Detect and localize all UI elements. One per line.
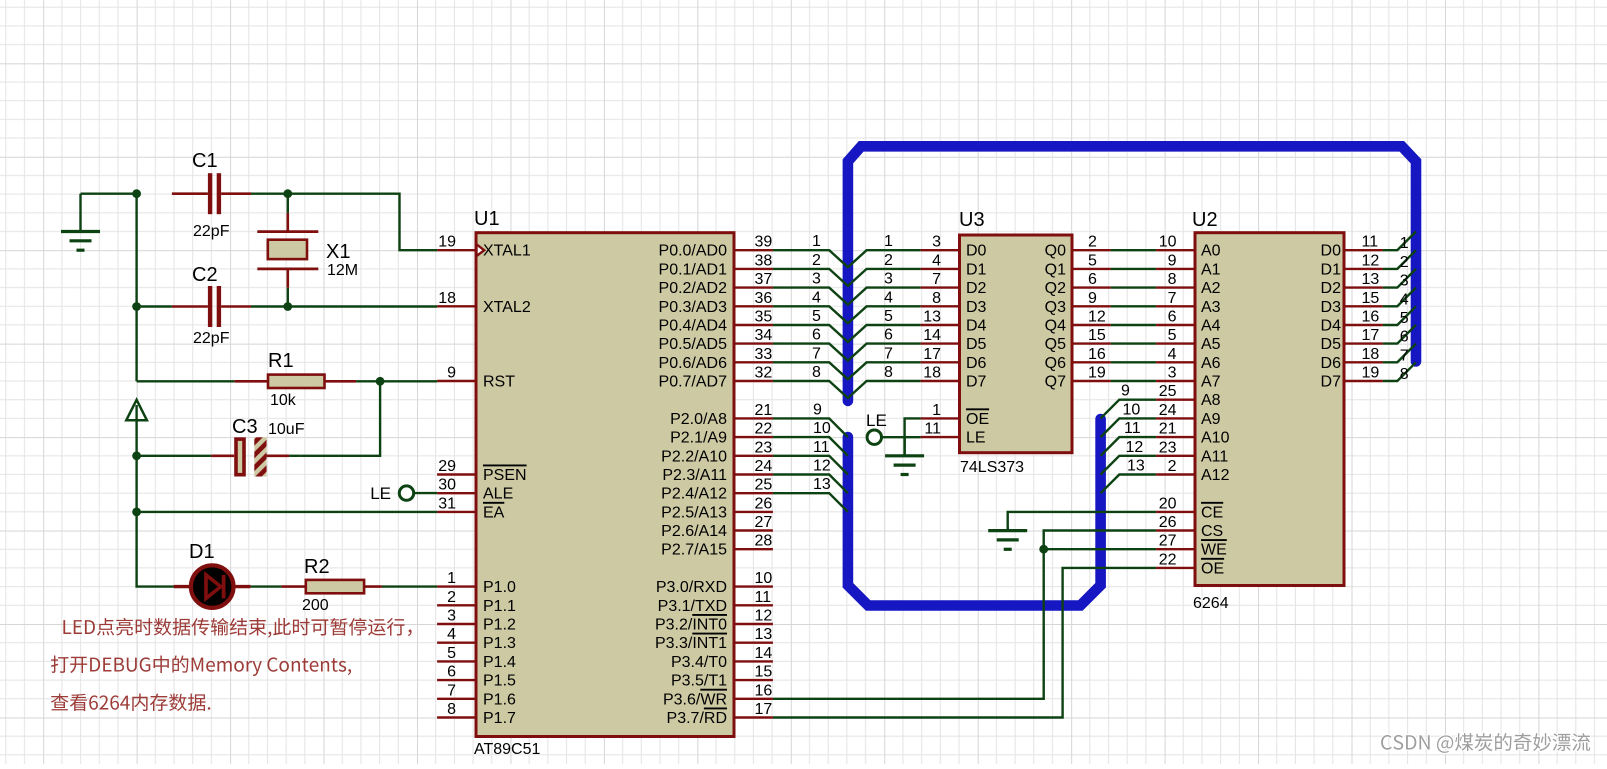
svg-text:XTAL2: XTAL2 — [483, 299, 531, 316]
watermark CSDN — [1381, 733, 1590, 753]
svg-text:36: 36 — [755, 290, 773, 307]
svg-text:P3.3/INT1: P3.3/INT1 — [655, 635, 727, 652]
svg-text:A8: A8 — [1201, 392, 1221, 409]
svg-text:8: 8 — [812, 364, 821, 381]
svg-text:D5: D5 — [966, 336, 987, 353]
svg-text:21: 21 — [755, 402, 773, 419]
svg-text:6: 6 — [884, 327, 893, 344]
svg-text:4: 4 — [812, 289, 821, 306]
node: junction C2/ground rail — [132, 302, 141, 311]
svg-text:29: 29 — [438, 458, 456, 475]
svg-text:27: 27 — [755, 514, 773, 531]
svg-text:D5: D5 — [1321, 336, 1342, 353]
svg-text:7: 7 — [1400, 347, 1409, 364]
node: junction EA row/ground rail — [132, 508, 141, 517]
svg-text:D2: D2 — [1321, 280, 1342, 297]
svg-text:P0.6/AD6: P0.6/AD6 — [659, 355, 728, 372]
svg-text:15: 15 — [1362, 290, 1380, 307]
svg-text:U2: U2 — [1192, 209, 1218, 231]
svg-text:R2: R2 — [304, 556, 330, 578]
U1 pin 38 P0.1/AD1 stub — [659, 252, 773, 278]
svg-text:ALE: ALE — [483, 486, 513, 503]
wire: net 7 P0.6/AD6 to bus to 74LS373 D6 — [773, 345, 921, 379]
svg-text:D4: D4 — [966, 318, 987, 335]
node: junction C2/X1 bottom — [283, 302, 292, 311]
svg-text:P1.0: P1.0 — [483, 579, 516, 596]
svg-text:Q6: Q6 — [1045, 355, 1066, 372]
svg-text:R1: R1 — [268, 350, 294, 372]
svg-text:12: 12 — [755, 608, 773, 625]
U1 pin 18 XTAL2 stub — [437, 290, 531, 316]
wire: net 5 P0.4/AD4 to bus to 74LS373 D4 — [773, 308, 921, 342]
node: junction WE/CS rail — [1039, 545, 1048, 554]
svg-text:18: 18 — [438, 290, 456, 307]
svg-text:11: 11 — [1124, 420, 1141, 437]
svg-text:P3.6/WR: P3.6/WR — [663, 691, 727, 708]
svg-text:7: 7 — [812, 345, 821, 362]
svg-text:A6: A6 — [1201, 355, 1221, 372]
svg-text:U1: U1 — [474, 208, 500, 230]
svg-text:16: 16 — [1362, 309, 1380, 326]
U1 pin 6 P1.5 stub — [437, 664, 516, 690]
svg-text:C1: C1 — [192, 150, 218, 172]
svg-text:9: 9 — [1088, 290, 1097, 307]
wire: LE terminal to U3 LE pin — [882, 436, 921, 438]
svg-text:9: 9 — [813, 401, 822, 418]
svg-text:A1: A1 — [1201, 261, 1221, 278]
svg-text:1: 1 — [1400, 235, 1409, 252]
svg-text:10: 10 — [1159, 234, 1177, 251]
svg-text:7: 7 — [932, 271, 941, 288]
U3 pin 11 LE stub — [921, 421, 986, 447]
svg-text:12: 12 — [1362, 252, 1380, 269]
svg-text:Q5: Q5 — [1045, 336, 1066, 353]
svg-text:2: 2 — [1088, 234, 1097, 251]
svg-text:P3.1/TXD: P3.1/TXD — [658, 598, 727, 615]
U1 pin 34 P0.5/AD5 stub — [659, 327, 773, 353]
svg-text:26: 26 — [1159, 514, 1177, 531]
svg-text:7: 7 — [1168, 290, 1177, 307]
svg-text:11: 11 — [813, 439, 830, 456]
svg-text:3: 3 — [884, 271, 893, 288]
node: junction C1/X1 top — [283, 189, 292, 198]
svg-text:13: 13 — [755, 626, 773, 643]
memory U2 body: 6264 SRAM — [1195, 233, 1344, 586]
svg-text:D3: D3 — [966, 299, 987, 316]
svg-text:16: 16 — [755, 682, 773, 699]
svg-text:5: 5 — [1400, 310, 1409, 327]
svg-text:A3: A3 — [1201, 299, 1221, 316]
svg-text:WE: WE — [1201, 542, 1227, 559]
U1 pin 10 P3.0/RXD stub — [656, 570, 773, 596]
svg-text:38: 38 — [755, 252, 773, 269]
svg-text:34: 34 — [755, 327, 773, 344]
U1 pin 19 XTAL1 stub — [437, 234, 531, 260]
svg-text:OE: OE — [1201, 560, 1224, 577]
wire: 6264 CS down to WE junction rail — [773, 531, 1156, 699]
svg-text:D1: D1 — [189, 541, 215, 563]
svg-text:13: 13 — [923, 309, 941, 326]
wire: 74LS373 Q5 to 6264 A5 — [1074, 327, 1194, 344]
svg-text:22: 22 — [1159, 551, 1177, 568]
svg-text:RST: RST — [483, 374, 515, 391]
U1 pin 23 P2.2/A10 stub — [661, 439, 773, 465]
svg-text:9: 9 — [1121, 383, 1130, 400]
U3 pin 13 D4 stub — [921, 309, 958, 326]
svg-text:P1.7: P1.7 — [483, 710, 516, 727]
svg-text:74LS373: 74LS373 — [960, 459, 1024, 476]
wire: 6264 WE tap — [1044, 548, 1156, 550]
U1 pin 39 P0.0/AD0 stub — [659, 234, 773, 260]
svg-text:A7: A7 — [1201, 374, 1221, 391]
svg-text:200: 200 — [302, 597, 329, 614]
U1 pin 4 P1.3 stub — [437, 626, 516, 652]
resistor R2 — [282, 580, 382, 593]
svg-text:23: 23 — [755, 439, 773, 456]
svg-text:6: 6 — [1400, 329, 1409, 346]
svg-text:P3.5/T1: P3.5/T1 — [671, 673, 727, 690]
svg-text:33: 33 — [755, 346, 773, 363]
svg-text:19: 19 — [438, 234, 456, 251]
U2 pin 27 WE stub — [1156, 533, 1227, 559]
wire: net 2 P0.1/AD1 to bus to 74LS373 D1 — [773, 252, 921, 286]
wire: rail to EA pin — [137, 511, 438, 513]
svg-text:1: 1 — [884, 233, 893, 250]
svg-text:LE: LE — [866, 411, 887, 430]
svg-text:5: 5 — [884, 308, 893, 325]
wire: net 11 address bus to 6264 A10 — [1101, 420, 1194, 456]
U1 pin 5 P1.4 stub — [437, 645, 516, 671]
U2 pin 26 CS stub — [1156, 514, 1223, 540]
svg-text:10: 10 — [755, 570, 773, 587]
svg-text:7: 7 — [447, 682, 456, 699]
U1 pin 25 P2.4/A12 stub — [661, 477, 773, 503]
svg-text:4: 4 — [1400, 291, 1409, 308]
svg-text:37: 37 — [755, 271, 773, 288]
node: junction C3/ground rail — [132, 451, 141, 460]
svg-text:2: 2 — [447, 589, 456, 606]
svg-text:D1: D1 — [966, 261, 987, 278]
U1 pin 9 RST stub — [437, 365, 515, 391]
U1 pin 13 P3.3/INT1 stub — [655, 626, 773, 652]
svg-text:P2.4/A12: P2.4/A12 — [661, 486, 727, 503]
svg-text:21: 21 — [1159, 421, 1177, 438]
wire: net 13 address bus to 6264 A12 — [1101, 458, 1194, 494]
U1 pin 35 P0.4/AD4 stub — [659, 309, 773, 335]
svg-text:4: 4 — [447, 626, 456, 643]
svg-text:9: 9 — [447, 365, 456, 382]
svg-text:17: 17 — [755, 701, 773, 718]
svg-text:31: 31 — [438, 495, 456, 512]
svg-text:D0: D0 — [966, 243, 987, 260]
wire: R2 to P1.0 pin — [382, 585, 437, 587]
svg-text:LE: LE — [370, 484, 391, 503]
resistor R1 — [137, 375, 357, 388]
U3 pin 17 D6 stub — [921, 346, 958, 363]
terminal LE (near ALE) — [399, 486, 413, 500]
svg-text:D7: D7 — [1321, 374, 1342, 391]
U1 XTAL1 clock arrow marker — [477, 244, 485, 256]
svg-text:P1.3: P1.3 — [483, 635, 516, 652]
wire: 6264 OE to P3.7/RD — [773, 568, 1156, 718]
svg-text:24: 24 — [755, 458, 773, 475]
wire: net 10 P2.1/A9 into address bus — [773, 420, 848, 456]
svg-text:6264: 6264 — [1193, 595, 1229, 612]
svg-text:A10: A10 — [1201, 430, 1230, 447]
svg-text:Q4: Q4 — [1045, 318, 1066, 335]
note line 3: inspect 6264 memory data — [51, 694, 210, 712]
capacitor C2 — [172, 286, 251, 327]
wire: C1 to X1 junction to XTAL1 corner — [251, 194, 437, 251]
U1 pin 7 P1.6 stub — [437, 682, 516, 708]
svg-text:P2.6/A14: P2.6/A14 — [661, 523, 727, 540]
svg-text:14: 14 — [755, 645, 773, 662]
svg-text:D6: D6 — [1321, 355, 1342, 372]
svg-text:D1: D1 — [1321, 261, 1342, 278]
wire: net 1 P0.0/AD0 to bus to 74LS373 D0 — [773, 233, 921, 267]
svg-text:EA: EA — [483, 504, 505, 521]
svg-text:9: 9 — [1168, 252, 1177, 269]
wire: net 2 6264 D1 to data bus — [1321, 250, 1416, 278]
terminal LE (U3 latch enable) — [867, 430, 881, 444]
U1 pin 37 P0.2/AD2 stub — [659, 271, 773, 297]
svg-text:25: 25 — [755, 477, 773, 494]
svg-text:P0.1/AD1: P0.1/AD1 — [659, 261, 728, 278]
svg-text:D0: D0 — [1321, 243, 1342, 260]
U1 pin 15 P3.5/T1 stub — [671, 664, 773, 690]
svg-text:A4: A4 — [1201, 318, 1221, 335]
U1 pin 28 P2.7/A15 stub — [661, 533, 773, 559]
bus: main data bus top loop (P0.x to 6264 D0-D7) — [848, 146, 1416, 401]
svg-text:6: 6 — [1168, 309, 1177, 326]
svg-text:5: 5 — [447, 645, 456, 662]
wire: D1 to R2 — [251, 585, 282, 587]
wire: LE terminal to ALE pin — [414, 492, 437, 494]
svg-text:4: 4 — [1168, 346, 1177, 363]
wire: 74LS373 Q4 to 6264 A4 — [1074, 309, 1194, 326]
svg-text:4: 4 — [884, 289, 893, 306]
U1 pin 11 P3.1/TXD stub — [658, 589, 773, 615]
svg-text:P1.4: P1.4 — [483, 654, 516, 671]
svg-text:U3: U3 — [959, 209, 985, 231]
svg-text:24: 24 — [1159, 402, 1177, 419]
svg-text:6: 6 — [812, 327, 821, 344]
svg-text:39: 39 — [755, 234, 773, 251]
U3 pin 3 D0 stub — [921, 234, 958, 251]
svg-text:AT89C51: AT89C51 — [474, 741, 541, 758]
svg-text:5: 5 — [1168, 327, 1177, 344]
svg-text:22: 22 — [755, 421, 773, 438]
svg-text:Q0: Q0 — [1045, 243, 1066, 260]
svg-text:A12: A12 — [1201, 467, 1230, 484]
svg-text:P0.5/AD5: P0.5/AD5 — [659, 336, 728, 353]
svg-text:10uF: 10uF — [268, 421, 305, 438]
ground symbol (6264 CE) — [988, 527, 1027, 549]
svg-text:18: 18 — [923, 365, 941, 382]
svg-text:P2.5/A13: P2.5/A13 — [661, 504, 727, 521]
svg-text:P0.2/AD2: P0.2/AD2 — [659, 280, 728, 297]
svg-text:D6: D6 — [966, 355, 987, 372]
wire: net 10 address bus to 6264 A9 — [1101, 401, 1194, 437]
svg-text:11: 11 — [924, 421, 941, 438]
wire: RST junction down to C3 right — [301, 381, 380, 456]
svg-text:10: 10 — [1123, 401, 1141, 418]
svg-text:XTAL1: XTAL1 — [483, 243, 531, 260]
U1 pin 29 PSEN stub — [437, 458, 526, 484]
svg-text:A2: A2 — [1201, 280, 1221, 297]
wire: net 8 P0.7/AD7 to bus to 74LS373 D7 — [773, 364, 921, 398]
U1 pin 21 P2.0/A8 stub — [670, 402, 773, 428]
U1 pin 17 P3.7/RD stub — [667, 701, 773, 727]
U1 pin 31 EA stub — [437, 495, 505, 521]
U1 pin 30 ALE stub — [437, 477, 513, 503]
U2 pin 22 OE stub — [1156, 551, 1224, 577]
svg-text:1: 1 — [932, 402, 941, 419]
U1 pin 1 P1.0 stub — [437, 570, 516, 596]
svg-text:26: 26 — [755, 495, 773, 512]
svg-text:8: 8 — [1168, 271, 1177, 288]
U1 pin 14 P3.4/T0 stub — [671, 645, 773, 671]
svg-text:P3.7/RD: P3.7/RD — [667, 710, 727, 727]
U3 pin 8 D3 stub — [921, 290, 958, 307]
svg-text:A9: A9 — [1201, 411, 1221, 428]
wire: net 3 6264 D2 to data bus — [1321, 269, 1416, 297]
svg-text:13: 13 — [1362, 271, 1380, 288]
svg-text:P1.5: P1.5 — [483, 673, 516, 690]
svg-text:5: 5 — [812, 308, 821, 325]
wire: 74LS373 Q6 to 6264 A6 — [1074, 346, 1194, 363]
svg-text:18: 18 — [1362, 346, 1380, 363]
wire: power rail down to LED row — [137, 405, 174, 587]
wire: U3 OE to ground tap — [905, 418, 921, 455]
svg-text:7: 7 — [884, 345, 893, 362]
svg-text:1: 1 — [812, 233, 821, 250]
node: junction RST/C3 — [376, 377, 385, 386]
wire: net 9 address bus to 6264 A8 — [1101, 383, 1194, 419]
svg-text:P0.4/AD4: P0.4/AD4 — [659, 318, 728, 335]
svg-text:10k: 10k — [270, 392, 297, 409]
svg-text:P3.0/RXD: P3.0/RXD — [656, 579, 727, 596]
crystal X1 — [257, 195, 318, 306]
note line 1: LED lights when transfer done — [63, 618, 411, 638]
svg-text:P1.6: P1.6 — [483, 691, 516, 708]
wire: net 7 6264 D6 to data bus — [1321, 344, 1416, 372]
svg-text:P1.1: P1.1 — [483, 598, 516, 615]
svg-text:11: 11 — [1362, 234, 1379, 251]
svg-text:D3: D3 — [1321, 299, 1342, 316]
wire: 74LS373 Q7 to 6264 A7 — [1074, 365, 1194, 382]
svg-text:A11: A11 — [1201, 448, 1228, 465]
ground symbol (top left) — [61, 194, 100, 251]
wire: ground rail to C2 — [137, 305, 172, 307]
svg-text:P3.2/INT0: P3.2/INT0 — [655, 617, 727, 634]
svg-text:8: 8 — [1400, 366, 1409, 383]
svg-text:12: 12 — [1126, 439, 1144, 456]
U3 pin 7 D2 stub — [921, 271, 958, 288]
svg-text:P2.3/A11: P2.3/A11 — [662, 467, 727, 484]
LED D1 — [174, 565, 251, 608]
wire: 74LS373 Q2 to 6264 A2 — [1074, 271, 1194, 288]
wire: net 12 address bus to 6264 A11 — [1101, 439, 1194, 475]
svg-text:2: 2 — [1168, 458, 1177, 475]
wire: net 3 P0.2/AD2 to bus to 74LS373 D2 — [773, 271, 921, 305]
svg-text:2: 2 — [812, 252, 821, 269]
svg-text:5: 5 — [1088, 252, 1097, 269]
svg-text:Q1: Q1 — [1045, 261, 1066, 278]
svg-text:D2: D2 — [966, 280, 987, 297]
svg-text:A0: A0 — [1201, 243, 1221, 260]
svg-text:20: 20 — [1159, 495, 1177, 512]
svg-text:3: 3 — [932, 234, 941, 251]
capacitor C1 — [172, 173, 251, 214]
bus: lower bus segment (P2.0-P2.4 address lines A8-A12) — [848, 419, 1101, 606]
svg-text:30: 30 — [438, 477, 456, 494]
svg-text:OE: OE — [966, 411, 989, 428]
svg-text:P0.7/AD7: P0.7/AD7 — [659, 374, 728, 391]
svg-text:11: 11 — [755, 589, 772, 606]
svg-text:C3: C3 — [232, 416, 258, 438]
U1 pin 22 P2.1/A9 stub — [670, 421, 773, 447]
svg-text:A5: A5 — [1201, 336, 1221, 353]
U1 pin 8 P1.7 stub — [437, 701, 516, 727]
svg-text:14: 14 — [923, 327, 941, 344]
svg-text:15: 15 — [1088, 327, 1106, 344]
U1 pin 12 P3.2/INT0 stub — [655, 608, 773, 634]
svg-text:32: 32 — [755, 365, 773, 382]
wire: net 1 6264 D0 to data bus — [1321, 232, 1416, 260]
wire: net 8 6264 D7 to data bus — [1321, 362, 1416, 390]
wire: 74LS373 Q1 to 6264 A1 — [1074, 252, 1194, 269]
svg-text:17: 17 — [923, 346, 941, 363]
svg-text:P0.3/AD3: P0.3/AD3 — [659, 299, 728, 316]
wire: C2 to XTAL2 pin — [251, 305, 437, 307]
svg-text:2: 2 — [884, 252, 893, 269]
svg-text:12M: 12M — [327, 262, 358, 279]
svg-text:4: 4 — [932, 252, 941, 269]
U1 pin 27 P2.6/A14 stub — [661, 514, 773, 540]
svg-text:12: 12 — [1088, 309, 1106, 326]
svg-text:6: 6 — [1088, 271, 1097, 288]
svg-text:13: 13 — [1127, 458, 1145, 475]
U1 pin 3 P1.2 stub — [437, 608, 516, 634]
svg-text:13: 13 — [813, 476, 831, 493]
op-amp U1 body: AT89C51 microcontroller — [476, 233, 734, 737]
node: junction C1/ground rail — [132, 189, 141, 198]
svg-text:28: 28 — [755, 533, 773, 550]
svg-text:P0.0/AD0: P0.0/AD0 — [659, 243, 728, 260]
svg-text:23: 23 — [1159, 439, 1177, 456]
wire: ground to C1 row — [81, 192, 137, 194]
svg-text:22pF: 22pF — [193, 223, 230, 240]
svg-text:CS: CS — [1201, 523, 1223, 540]
wire: net 6 6264 D5 to data bus — [1321, 325, 1416, 353]
U3 pin 18 D7 stub — [921, 365, 958, 382]
svg-text:P2.1/A9: P2.1/A9 — [670, 430, 727, 447]
svg-text:P2.7/A15: P2.7/A15 — [661, 542, 727, 559]
U3 pin 1 OE stub — [921, 402, 990, 428]
wire: net 4 6264 D3 to data bus — [1321, 288, 1416, 316]
svg-text:6: 6 — [447, 664, 456, 681]
svg-text:1: 1 — [447, 570, 456, 587]
svg-text:P2.2/A10: P2.2/A10 — [661, 448, 727, 465]
svg-text:27: 27 — [1159, 533, 1177, 550]
svg-text:8: 8 — [932, 290, 941, 307]
svg-text:C2: C2 — [192, 264, 218, 286]
svg-text:X1: X1 — [326, 241, 350, 263]
svg-text:10: 10 — [813, 420, 831, 437]
svg-text:D7: D7 — [966, 374, 987, 391]
svg-text:12: 12 — [813, 458, 831, 475]
